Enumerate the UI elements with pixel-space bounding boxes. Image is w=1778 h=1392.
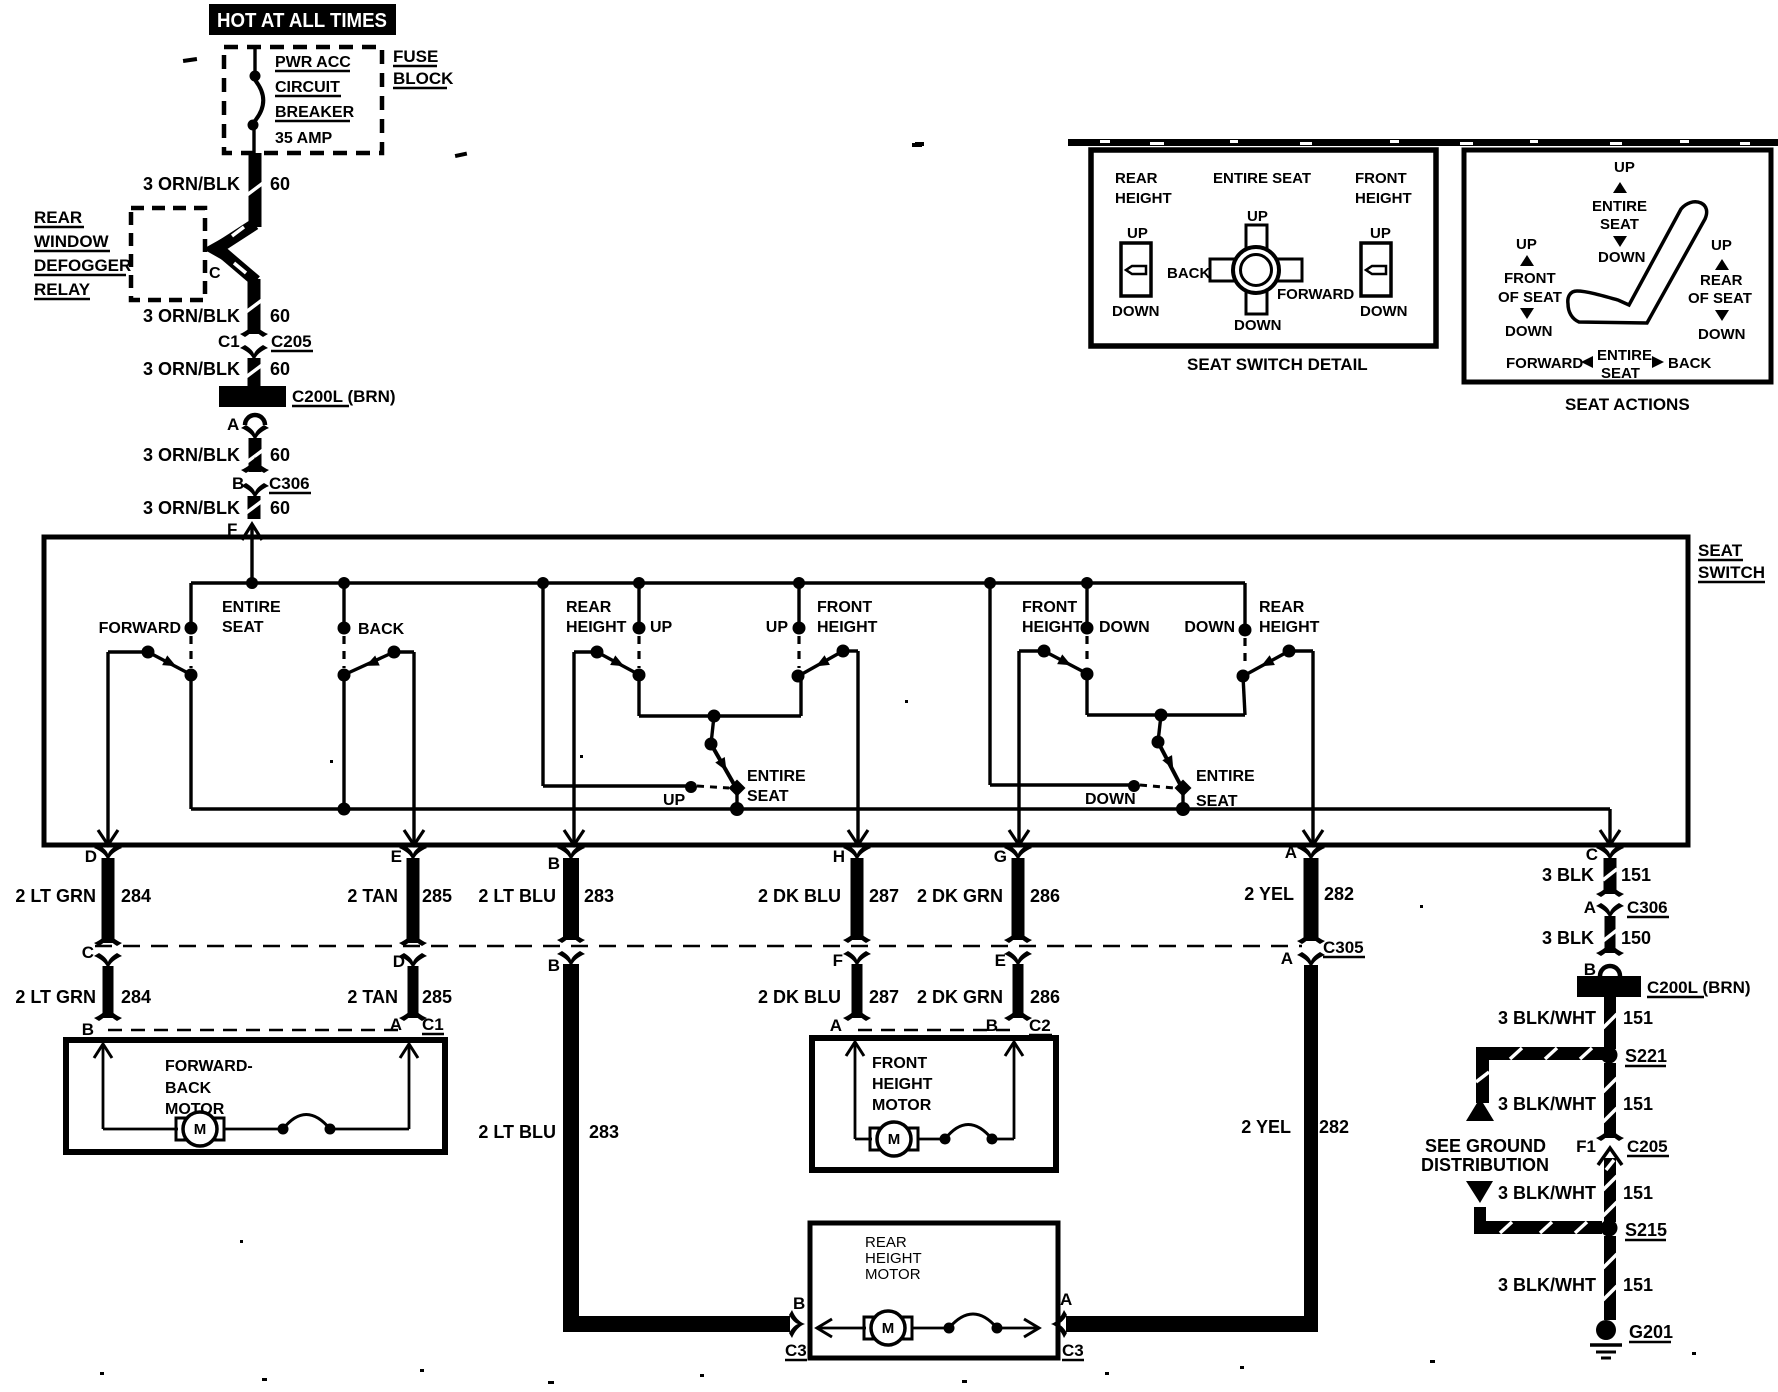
switch REAR HEIGHT UP fixed contact <box>633 622 646 682</box>
svg-text:FORWARD: FORWARD <box>1277 286 1354 303</box>
svg-text:ENTIRE: ENTIRE <box>747 768 806 785</box>
pin B seat switch output <box>548 845 585 873</box>
wire FRONT HEIGHT arm to output H <box>843 651 868 845</box>
wire bus drop to REAR HEIGHT DOWN contact <box>1243 583 1246 626</box>
pin E seat switch output <box>391 845 427 866</box>
svg-text:A: A <box>390 1015 402 1034</box>
label FORWARD <box>99 620 181 637</box>
svg-text:A: A <box>1281 949 1293 968</box>
label 2 TAN 285 <box>347 886 452 906</box>
svg-text:BACK: BACK <box>358 621 405 638</box>
svg-text:2 DK BLU: 2 DK BLU <box>758 987 841 1007</box>
svg-text:UP: UP <box>1614 159 1635 176</box>
svg-text:3 ORN/BLK: 3 ORN/BLK <box>143 174 240 194</box>
label 3 BLK/WHT 151 <box>1498 1275 1653 1295</box>
wire 3 BLK/WHT 151 C205 to S215 with arrow <box>1598 1148 1622 1222</box>
wire 2 LT GRN 284 lower D <box>94 966 122 1021</box>
node F feed junction <box>246 577 258 589</box>
svg-text:SEAT: SEAT <box>747 788 789 805</box>
label PWR ACC CIRCUIT BREAKER 35 AMP <box>275 54 355 147</box>
svg-text:A: A <box>830 1016 842 1035</box>
svg-text:DOWN: DOWN <box>1598 249 1646 266</box>
svg-text:FUSE: FUSE <box>393 47 438 66</box>
svg-text:A: A <box>1285 843 1297 862</box>
pin A at front height motor <box>830 1016 842 1035</box>
connector C1 inline row dashed <box>108 1029 405 1032</box>
svg-text:HOT AT ALL TIMES: HOT AT ALL TIMES <box>217 10 387 32</box>
label 3 BLK/WHT 151 <box>1498 1183 1653 1203</box>
svg-text:REAR: REAR <box>34 208 82 227</box>
connector C205 pin C1 inline <box>218 321 313 361</box>
svg-text:UP: UP <box>766 619 789 636</box>
svg-text:C1: C1 <box>218 332 240 351</box>
svg-text:REAR: REAR <box>1115 170 1158 187</box>
switch REAR HEIGHT DOWN wiper arm <box>1247 645 1296 675</box>
switch BACK fixed contact <box>338 622 351 682</box>
label DOWN <box>1184 619 1235 636</box>
switch FRONT HEIGHT DOWN fixed contact <box>1081 622 1094 681</box>
svg-text:60: 60 <box>270 306 290 326</box>
label 2 LT GRN 284 <box>15 886 151 906</box>
svg-text:HEIGHT: HEIGHT <box>817 619 878 636</box>
wire 3 BLK/WHT 151 S221 to C205 <box>1596 1063 1624 1141</box>
svg-text:HEIGHT: HEIGHT <box>1355 190 1412 207</box>
connector C200L (BRN) pass-through <box>219 386 396 407</box>
node HOT AT ALL TIMES <box>209 4 396 35</box>
label UP <box>650 619 673 636</box>
svg-text:3 BLK/WHT: 3 BLK/WHT <box>1498 1183 1596 1203</box>
wire 2 DK BLU 287 upper H <box>843 858 871 943</box>
svg-text:151: 151 <box>1623 1275 1653 1295</box>
wire UP pair link rear-front movables <box>639 675 801 723</box>
svg-text:FRONT: FRONT <box>1504 270 1556 287</box>
rear height rocker switch <box>1112 225 1160 320</box>
svg-text:283: 283 <box>584 886 614 906</box>
label SEAT SWITCH <box>1698 541 1765 582</box>
seat switch detail box <box>1091 150 1436 346</box>
label 2 DK BLU 287 <box>758 987 899 1007</box>
label ENTIRE SEAT <box>1213 170 1311 187</box>
wire bus drop to FRONT HEIGHT UP contact <box>793 577 805 624</box>
scan artifact top left <box>183 57 197 63</box>
wire 2 YEL 282 to rear height motor <box>1051 965 1318 1338</box>
svg-text:C: C <box>209 265 221 282</box>
wire branch to ground distribution lower <box>1466 1181 1602 1234</box>
svg-text:DOWN: DOWN <box>1085 791 1136 808</box>
wire motor lead B <box>94 1044 178 1129</box>
svg-text:WINDOW: WINDOW <box>34 232 110 251</box>
label FRONT HEIGHT <box>1355 170 1412 207</box>
wire 2 DK BLU 287 lower H <box>843 964 871 1021</box>
label FRONT HEIGHT <box>1022 599 1083 636</box>
svg-text:FORWARD-: FORWARD- <box>165 1058 253 1075</box>
wire BACK arm to output E <box>394 652 424 845</box>
svg-text:SEAT: SEAT <box>222 619 264 636</box>
label 2 YEL 282 <box>1241 1117 1349 1137</box>
label 3 BLK/WHT 151 <box>1498 1008 1653 1028</box>
switch FORWARD fixed contact <box>185 622 198 682</box>
svg-text:REAR: REAR <box>1700 272 1743 289</box>
svg-text:E: E <box>391 847 402 866</box>
circuit breaker PWR ACC 35 AMP <box>248 47 264 153</box>
svg-text:B: B <box>82 1020 94 1039</box>
svg-text:B: B <box>232 474 244 493</box>
svg-text:PWR ACC: PWR ACC <box>275 54 351 71</box>
entire seat 4-way knob <box>1167 208 1354 334</box>
connector pin A below C200L <box>227 415 269 441</box>
forward-back motor box <box>66 1040 445 1152</box>
svg-text:3 ORN/BLK: 3 ORN/BLK <box>143 306 240 326</box>
pin C seat switch output <box>1586 845 1624 864</box>
pin B connector C3 rear motor left <box>785 1294 807 1360</box>
svg-text:35 AMP: 35 AMP <box>275 130 333 147</box>
connector C2 inline row dashed <box>858 1029 1013 1032</box>
label ENTIRE SEAT <box>1196 768 1255 810</box>
svg-text:C306: C306 <box>269 474 310 493</box>
seat profile drawing <box>1568 202 1707 323</box>
label FRONT HEIGHT <box>817 599 878 636</box>
wire motor lead A front height <box>846 1042 872 1139</box>
svg-text:HEIGHT: HEIGHT <box>1115 190 1172 207</box>
svg-text:G: G <box>994 847 1007 866</box>
svg-text:UP: UP <box>1516 236 1537 253</box>
wire 2 YEL 282 upper A <box>1297 858 1325 944</box>
connector C305 pin A <box>1281 938 1365 968</box>
svg-text:B: B <box>548 956 560 975</box>
svg-text:OF SEAT: OF SEAT <box>1688 290 1752 307</box>
svg-text:B: B <box>548 854 560 873</box>
svg-text:285: 285 <box>422 987 452 1007</box>
svg-text:SEAT: SEAT <box>1601 365 1640 382</box>
pin C label <box>209 265 221 282</box>
svg-text:282: 282 <box>1319 1117 1349 1137</box>
wire motor lead B with loop front height <box>918 1042 1023 1145</box>
switch ENTIRE SEAT UP wiper <box>705 716 746 816</box>
svg-text:MOTOR: MOTOR <box>872 1097 932 1114</box>
svg-text:3 BLK: 3 BLK <box>1542 928 1594 948</box>
svg-text:C1: C1 <box>422 1015 444 1034</box>
svg-text:A: A <box>1060 1290 1072 1309</box>
svg-text:HEIGHT: HEIGHT <box>1022 619 1083 636</box>
svg-text:DOWN: DOWN <box>1184 619 1235 636</box>
label 2 LT BLU 283 <box>478 886 614 906</box>
label REAR HEIGHT <box>1259 599 1320 636</box>
svg-text:284: 284 <box>121 886 151 906</box>
splice S215 <box>1601 1220 1668 1241</box>
svg-text:2 TAN: 2 TAN <box>347 987 398 1007</box>
label 3 BLK 150 <box>1542 928 1651 948</box>
wire 3 ORN/BLK 60 relay to C205 <box>246 279 262 334</box>
svg-text:C305: C305 <box>1323 938 1364 957</box>
svg-text:UP: UP <box>1711 237 1732 254</box>
switch FRONT HEIGHT UP fixed contact <box>792 622 806 683</box>
svg-text:151: 151 <box>1623 1008 1653 1028</box>
svg-text:151: 151 <box>1623 1183 1653 1203</box>
svg-text:150: 150 <box>1621 928 1651 948</box>
label REAR HEIGHT <box>566 599 627 636</box>
label 2 LT GRN 284 <box>15 987 151 1007</box>
label 2 LT BLU 283 <box>478 1122 619 1142</box>
svg-text:UP: UP <box>650 619 673 636</box>
svg-text:2 LT BLU: 2 LT BLU <box>478 886 556 906</box>
wire BACK movable to common bus <box>338 675 351 816</box>
wire bus drop to FRONT HEIGHT DOWN contact <box>1081 577 1093 624</box>
svg-text:FRONT: FRONT <box>817 599 872 616</box>
label 2 DK GRN 286 <box>917 987 1060 1007</box>
svg-text:OF SEAT: OF SEAT <box>1498 289 1562 306</box>
svg-text:SEAT: SEAT <box>1196 793 1238 810</box>
seat actions box <box>1464 150 1771 382</box>
label REAR HEIGHT MOTOR <box>865 1234 922 1283</box>
svg-text:M: M <box>194 1121 207 1138</box>
svg-text:SEAT: SEAT <box>1698 541 1743 560</box>
svg-text:151: 151 <box>1623 1094 1653 1114</box>
svg-text:HEIGHT: HEIGHT <box>865 1250 922 1267</box>
svg-text:BACK: BACK <box>165 1080 212 1097</box>
pin A seat switch output <box>1285 843 1325 862</box>
wire bus drop to ENTIRE SEAT DOWN feed <box>984 577 1140 792</box>
connector C305 inline row dashed <box>95 945 1302 948</box>
label 3 ORN/BLK 60 <box>143 498 290 518</box>
wire 2 LT GRN 284 upper D <box>94 858 122 946</box>
connector C200L (BRN) right <box>1577 976 1751 997</box>
svg-text:A: A <box>1584 898 1596 917</box>
wire tap into relay pin C with arrow <box>203 224 256 281</box>
pin C at C305 <box>82 943 122 969</box>
connector pin B above C200L <box>1584 960 1620 979</box>
svg-text:C205: C205 <box>1627 1137 1668 1156</box>
label FORWARD-BACK MOTOR <box>165 1058 253 1118</box>
svg-text:2 DK GRN: 2 DK GRN <box>917 987 1003 1007</box>
svg-text:REAR: REAR <box>566 599 612 616</box>
svg-text:60: 60 <box>270 174 290 194</box>
label UP ENTIRE SEAT DOWN top <box>1592 159 1647 266</box>
svg-text:3 BLK: 3 BLK <box>1542 865 1594 885</box>
wire 2 TAN 285 upper E <box>399 858 427 946</box>
svg-text:C3: C3 <box>785 1341 807 1360</box>
svg-text:G201: G201 <box>1629 1322 1673 1342</box>
label BACK <box>358 621 405 638</box>
label SEE GROUND DISTRIBUTION <box>1421 1136 1549 1175</box>
wire DOWN pair link front-rear movables <box>1087 674 1245 722</box>
svg-text:ENTIRE SEAT: ENTIRE SEAT <box>1213 170 1311 187</box>
label UP REAR OF SEAT DOWN right <box>1688 237 1752 343</box>
svg-text:UP: UP <box>1370 225 1391 242</box>
svg-text:DOWN: DOWN <box>1698 326 1746 343</box>
svg-text:FRONT: FRONT <box>872 1055 927 1072</box>
switch FRONT HEIGHT UP wiper arm <box>802 645 850 675</box>
label UP entire-seat-up throw <box>663 792 686 809</box>
caption SEAT SWITCH DETAIL <box>1187 355 1368 374</box>
svg-text:282: 282 <box>1324 884 1354 904</box>
svg-text:C: C <box>1586 845 1598 864</box>
svg-text:UP: UP <box>663 792 686 809</box>
svg-text:2 YEL: 2 YEL <box>1244 884 1294 904</box>
label FORWARD ENTIRE SEAT BACK bottom <box>1506 347 1711 382</box>
svg-text:3 ORN/BLK: 3 ORN/BLK <box>143 498 240 518</box>
svg-text:DOWN: DOWN <box>1112 303 1160 320</box>
pin D at C305 <box>393 952 427 971</box>
svg-text:3 BLK/WHT: 3 BLK/WHT <box>1498 1008 1596 1028</box>
svg-text:FRONT: FRONT <box>1355 170 1407 187</box>
svg-text:ENTIRE: ENTIRE <box>222 599 281 616</box>
ground G201 <box>1590 1320 1673 1358</box>
label UP FRONT OF SEAT DOWN left <box>1498 236 1562 340</box>
svg-text:2 LT GRN: 2 LT GRN <box>15 987 96 1007</box>
svg-text:BACK: BACK <box>1668 355 1711 372</box>
svg-text:HEIGHT: HEIGHT <box>566 619 627 636</box>
svg-text:M: M <box>882 1320 895 1337</box>
svg-text:SEE GROUND: SEE GROUND <box>1425 1136 1546 1156</box>
label 2 TAN 285 <box>347 987 452 1007</box>
svg-text:2 YEL: 2 YEL <box>1241 1117 1291 1137</box>
label 3 ORN/BLK 60 <box>143 174 290 194</box>
svg-text:284: 284 <box>121 987 151 1007</box>
wire feed bus inside switch <box>191 581 1245 584</box>
svg-text:A: A <box>227 415 239 434</box>
label FRONT HEIGHT MOTOR <box>872 1055 933 1114</box>
rear height motor box <box>810 1223 1058 1358</box>
wire 2 TAN 285 lower E <box>399 966 427 1021</box>
pin B at C305 <box>548 951 585 975</box>
svg-text:286: 286 <box>1030 987 1060 1007</box>
label 2 DK BLU 287 <box>758 886 899 906</box>
svg-text:MOTOR: MOTOR <box>865 1266 921 1283</box>
seat switch box <box>44 537 1688 845</box>
wire ENTIRE SEAT UP feed dashed throw <box>697 786 729 788</box>
wire bus drop to REAR HEIGHT UP contact <box>633 577 645 624</box>
wire bus drop to FORWARD contact <box>189 583 192 624</box>
svg-text:DOWN: DOWN <box>1234 317 1282 334</box>
switch REAR HEIGHT DOWN fixed contact <box>1237 624 1252 683</box>
svg-text:DOWN: DOWN <box>1360 303 1408 320</box>
label UP <box>766 619 789 636</box>
wire 3 ORN/BLK 60 C205 to C200L <box>246 358 262 386</box>
wire 2 LT BLU 283 to rear height motor <box>563 964 805 1338</box>
wire 3 BLK/WHT 151 to S221 <box>1603 997 1617 1049</box>
caption SEAT ACTIONS <box>1565 395 1690 414</box>
svg-text:D: D <box>85 847 97 866</box>
svg-text:F1: F1 <box>1576 1137 1596 1156</box>
svg-text:BREAKER: BREAKER <box>275 104 355 121</box>
motor M front height <box>870 1122 918 1156</box>
wire REAR HEIGHT arm to output B <box>564 652 597 845</box>
pin F label and entry arrow <box>227 520 262 583</box>
svg-text:BACK: BACK <box>1167 265 1210 282</box>
svg-text:C200L (BRN): C200L (BRN) <box>1647 978 1751 997</box>
wire bus drop to ENTIRE SEAT UP feed <box>537 577 697 793</box>
svg-text:C2: C2 <box>1029 1016 1051 1035</box>
wire 3 BLK 150 <box>1596 916 1624 956</box>
switch BACK wiper arm <box>348 646 401 674</box>
pin E at C305 <box>995 951 1032 970</box>
svg-text:283: 283 <box>589 1122 619 1142</box>
switch FORWARD wiper arm <box>142 646 189 674</box>
svg-text:C: C <box>82 943 94 962</box>
svg-text:F: F <box>833 951 843 970</box>
wire FORWARD arm to output D <box>98 652 148 845</box>
connector C306 pin A <box>1584 898 1669 919</box>
splice S221 <box>1601 1046 1668 1066</box>
svg-text:C205: C205 <box>271 332 312 351</box>
svg-text:2 TAN: 2 TAN <box>347 886 398 906</box>
svg-text:CIRCUIT: CIRCUIT <box>275 79 340 96</box>
svg-text:B: B <box>793 1294 805 1313</box>
svg-text:60: 60 <box>270 445 290 465</box>
label REAR HEIGHT <box>1115 170 1172 207</box>
motor M rear height <box>864 1311 912 1345</box>
svg-text:C3: C3 <box>1062 1341 1084 1360</box>
wire motor lead B rear height <box>817 1319 866 1337</box>
svg-text:2 DK GRN: 2 DK GRN <box>917 886 1003 906</box>
svg-text:C200L (BRN): C200L (BRN) <box>292 387 396 406</box>
label DOWN entire-seat-down throw <box>1085 791 1136 808</box>
page split hatch band <box>915 139 1778 146</box>
connector C205 pin F1 <box>1576 1137 1669 1156</box>
switch ENTIRE SEAT DOWN wiper <box>1152 715 1192 816</box>
label ENTIRE SEAT <box>747 768 806 805</box>
wire motor lead A with loop <box>224 1044 418 1135</box>
wire motor lead A with loop rear height <box>912 1314 1039 1337</box>
svg-text:3 ORN/BLK: 3 ORN/BLK <box>143 445 240 465</box>
front height rocker switch <box>1360 225 1408 320</box>
svg-text:DEFOGGER: DEFOGGER <box>34 256 131 275</box>
label DOWN <box>1099 619 1150 636</box>
svg-text:ENTIRE: ENTIRE <box>1196 768 1255 785</box>
svg-text:HEIGHT: HEIGHT <box>1259 619 1320 636</box>
pin A connector C3 rear motor right <box>1060 1290 1084 1360</box>
pin F at C305 <box>833 951 871 970</box>
wire 2 LT BLU 283 upper B <box>557 858 585 943</box>
wire 3 ORN/BLK 60 C306 to seat switch pin F <box>246 496 262 519</box>
svg-text:2 LT GRN: 2 LT GRN <box>15 886 96 906</box>
front height motor box <box>812 1038 1056 1170</box>
connector C306 pin B inline <box>232 457 311 499</box>
svg-text:FORWARD: FORWARD <box>1506 355 1583 372</box>
svg-text:3 ORN/BLK: 3 ORN/BLK <box>143 359 240 379</box>
pin H seat switch output <box>833 845 871 866</box>
wire 3 BLK 151 <box>1596 858 1624 897</box>
label FUSE BLOCK <box>393 47 454 88</box>
svg-text:M: M <box>888 1131 901 1148</box>
wire switch common bus to output C <box>191 809 1620 845</box>
svg-text:S221: S221 <box>1625 1046 1667 1066</box>
svg-text:H: H <box>833 847 845 866</box>
svg-text:60: 60 <box>270 498 290 518</box>
label REAR WINDOW DEFOGGER RELAY <box>34 208 131 299</box>
label 3 BLK 151 <box>1542 865 1651 885</box>
svg-text:285: 285 <box>422 886 452 906</box>
svg-text:REAR: REAR <box>865 1234 907 1251</box>
svg-text:B: B <box>986 1016 998 1035</box>
svg-text:SEAT: SEAT <box>1600 216 1639 233</box>
wire REAR HEIGHT DOWN arm to output A <box>1289 651 1323 845</box>
svg-text:BLOCK: BLOCK <box>393 69 454 88</box>
label 2 YEL 282 <box>1244 884 1354 904</box>
svg-text:3 BLK/WHT: 3 BLK/WHT <box>1498 1275 1596 1295</box>
svg-text:RELAY: RELAY <box>34 280 91 299</box>
switch REAR HEIGHT UP wiper arm <box>591 646 637 674</box>
wire branch to ground distribution upper <box>1466 1047 1605 1121</box>
svg-text:287: 287 <box>869 886 899 906</box>
svg-text:2 DK BLU: 2 DK BLU <box>758 886 841 906</box>
pin B at forward-back motor <box>82 1020 94 1039</box>
svg-text:286: 286 <box>1030 886 1060 906</box>
wire FRONT HEIGHT DOWN arm to output G <box>1009 651 1044 845</box>
label 3 ORN/BLK 60 <box>143 306 290 326</box>
wire 2 DK GRN 286 lower G <box>1004 964 1032 1021</box>
svg-text:2 LT BLU: 2 LT BLU <box>478 1122 556 1142</box>
